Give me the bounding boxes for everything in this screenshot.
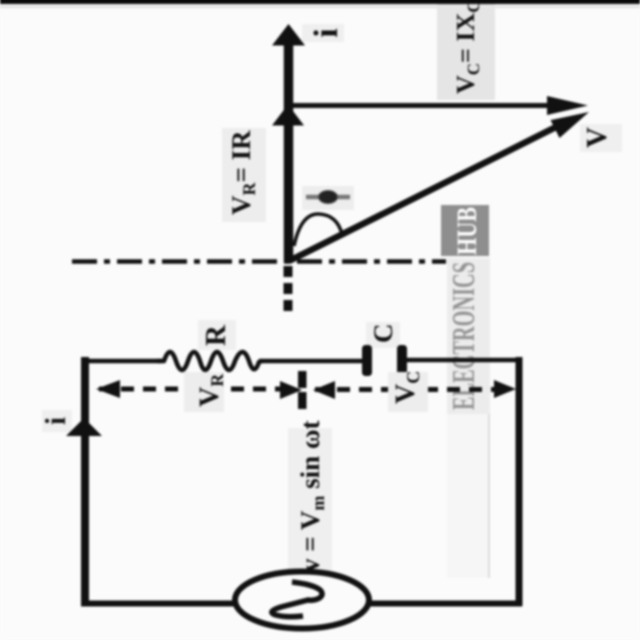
svg-text:V: V [581, 127, 613, 148]
svg-text:VC= IXC: VC= IXC [451, 0, 483, 94]
svg-text:C: C [368, 324, 398, 344]
svg-text:R: R [200, 324, 232, 346]
svg-text:v = Vm sin ωt: v = Vm sin ωt [295, 420, 328, 572]
svg-text:i: i [308, 28, 345, 37]
svg-text:VR= IR: VR= IR [226, 130, 259, 215]
svg-text:i: i [40, 417, 72, 425]
svg-text:HUB: HUB [452, 207, 483, 255]
